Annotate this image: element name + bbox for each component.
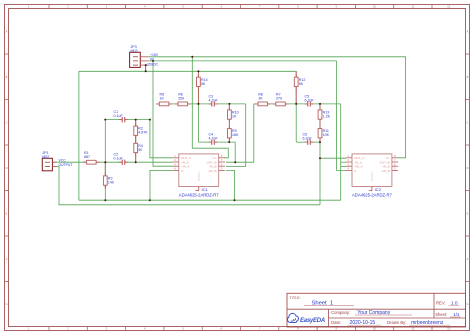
svg-text:250: 250 — [178, 97, 184, 101]
svg-text:D: D — [6, 166, 8, 170]
wire 0V drop to IC1 +IN_A — [153, 61, 173, 166]
svg-text:16K: 16K — [232, 133, 239, 137]
label C1 — [114, 110, 124, 118]
svg-text:1.2K: 1.2K — [323, 115, 331, 119]
svg-text:1/1: 1/1 — [453, 312, 460, 317]
svg-text:140: 140 — [108, 181, 114, 185]
wire IC1 +IN_B to bus1 — [226, 170, 235, 200]
svg-text:B: B — [467, 75, 469, 79]
resistor R5 1K — [156, 102, 172, 106]
svg-text:50: 50 — [138, 148, 142, 152]
svg-text:887: 887 — [84, 155, 90, 159]
label R2 — [138, 127, 148, 135]
capacitor C5 6.2nF — [305, 101, 314, 106]
capacitor C2 0.1uF — [119, 160, 128, 165]
svg-text:G: G — [466, 302, 468, 306]
title block TITLE label — [290, 296, 301, 300]
wire -V line from JP3 pin3 through R14 and R12 — [79, 71, 296, 104]
svg-text:B: B — [6, 75, 8, 79]
svg-text:C: C — [467, 120, 469, 124]
svg-text:10K: 10K — [323, 133, 330, 137]
wire bus1 riser to stage2 row — [340, 104, 342, 200]
svg-text:0.1uF: 0.1uF — [114, 114, 124, 118]
label R13 — [323, 111, 331, 119]
wire bottom bus2 output — [52, 166, 320, 204]
svg-text:1K: 1K — [232, 115, 237, 119]
resistor R12 56 — [294, 74, 298, 90]
net label +15V — [150, 53, 159, 57]
net label -15VDC — [146, 63, 159, 67]
resistor lead R14 — [197, 71, 199, 104]
svg-text:+IN_B: +IN_B — [208, 169, 216, 173]
svg-text:0.1uF: 0.1uF — [114, 157, 124, 161]
label JP3 refdes — [131, 45, 138, 53]
resistor R4 50 — [134, 140, 138, 156]
label C4 — [209, 133, 219, 141]
wire R2 R4 chain column — [135, 120, 137, 163]
wire branch to IC2 -IN_A pin — [341, 161, 346, 163]
resistor R11 10K — [318, 125, 322, 141]
capacitor C3 4.7nF — [209, 101, 218, 106]
resistor lead R3 — [104, 163, 106, 189]
svg-text:ADA4625: ADA4625 — [371, 171, 374, 181]
wire JP3 pin3 stub drop — [145, 65, 147, 71]
svg-text:56: 56 — [299, 82, 303, 86]
svg-text:V-: V- — [181, 169, 184, 173]
capacitor C4 4.7nF — [209, 140, 218, 145]
connector JP3 M03 power header — [130, 52, 149, 67]
capacitor C1 0.1uF — [119, 117, 128, 122]
label C2 — [114, 153, 124, 161]
wire C3 node to C4 — [197, 104, 199, 142]
op-amp IC1 ADA4625-2ARDZ-R7 — [173, 154, 225, 191]
svg-text:Drawn By:: Drawn By: — [387, 320, 406, 325]
title block Sheet number — [435, 312, 460, 317]
label R10 — [232, 111, 239, 119]
svg-text:G: G — [5, 302, 7, 306]
wire +V staircase to IC1 V+ — [192, 57, 228, 158]
wire +V bus from JP3 pin1 to IC2 V+ — [148, 57, 405, 158]
resistor R3 140 — [103, 173, 107, 189]
title block sheet name — [304, 300, 354, 306]
wire IC1 V- to bus1 — [150, 170, 173, 200]
label R6 — [178, 93, 184, 101]
net label VCC — [59, 159, 67, 163]
resistor chain lead R13-R11 — [319, 104, 321, 142]
resistor lead R12 — [295, 71, 297, 104]
svg-text:E: E — [467, 211, 469, 215]
svg-text:A: A — [6, 29, 8, 33]
title block Date — [331, 320, 381, 326]
svg-text:Company:: Company: — [331, 310, 350, 315]
resistor R2 4.87K — [134, 123, 138, 139]
label IC2 — [352, 187, 392, 198]
label R1 — [84, 151, 90, 159]
resistor R14 56 — [197, 74, 201, 90]
label JP1 refdes — [42, 151, 49, 159]
EasyEDA logo — [288, 313, 325, 324]
title block REV — [436, 301, 460, 307]
label R12 — [299, 78, 306, 86]
junction dots — [104, 56, 321, 201]
wire C6 row — [296, 104, 320, 142]
svg-text:6.2nF: 6.2nF — [303, 137, 313, 141]
svg-text:1K: 1K — [160, 97, 165, 101]
wire 0V down to IC2 V- pin — [337, 61, 347, 170]
label C6 — [303, 133, 313, 141]
svg-text:ADA4625: ADA4625 — [198, 171, 201, 181]
svg-text:M02: M02 — [42, 155, 49, 159]
wire IC2 OUT_A node vertical — [319, 104, 321, 158]
resistor R10 1K — [228, 107, 232, 123]
net label OUTPUT — [59, 163, 73, 167]
wire C4/R9 node to OUT_B — [229, 142, 235, 162]
svg-text:C: C — [6, 120, 8, 124]
svg-text:REV:: REV: — [436, 301, 446, 306]
svg-text:ADA4625-2ARDZ-R7: ADA4625-2ARDZ-R7 — [179, 193, 219, 198]
wire C4 row — [198, 141, 229, 143]
label C5 — [305, 94, 315, 102]
svg-text:+IN_B: +IN_B — [381, 169, 389, 173]
capacitor C6 6.2nF — [305, 140, 314, 145]
wire stage1 signal row — [157, 103, 246, 105]
resistor R1 887 — [83, 160, 99, 164]
resistor chain lead R2-R4 — [135, 120, 137, 163]
wire input row — [52, 161, 172, 163]
wire C1 left drop through R3 — [104, 120, 106, 201]
svg-text:Date:: Date: — [331, 320, 341, 325]
svg-text:OUTPUT: OUTPUT — [59, 163, 73, 167]
svg-text:E: E — [6, 211, 8, 215]
svg-text:TITLE:: TITLE: — [290, 296, 301, 300]
svg-text:ADA4625-2ARDZ-R7: ADA4625-2ARDZ-R7 — [352, 193, 392, 198]
resistor R9 16K — [228, 125, 232, 141]
svg-text:270: 270 — [276, 97, 282, 101]
svg-text:4.87K: 4.87K — [138, 131, 148, 135]
label R5 — [160, 93, 165, 101]
resistor R8 1K — [255, 102, 271, 106]
svg-text:V-: V- — [354, 169, 357, 173]
label R8 — [258, 93, 263, 101]
resistor R6 250 — [175, 102, 191, 106]
title block Company — [331, 310, 412, 316]
label R7 — [276, 93, 282, 101]
title block frame — [287, 293, 466, 327]
wire stage2 signal row — [254, 103, 341, 105]
op-amp IC2 ADA4625-2ARDZ-R7 — [346, 154, 398, 191]
svg-text:56: 56 — [201, 82, 205, 86]
label R9 — [232, 129, 239, 137]
resistor R13 1.2K — [318, 107, 322, 123]
svg-text:M03: M03 — [131, 49, 138, 53]
wire OUT_B to stage2 row — [226, 104, 254, 162]
svg-text:Sheet:: Sheet: — [435, 312, 447, 317]
label IC1 — [179, 187, 219, 198]
wire stage1 row to IC1 -IN_B pin — [226, 104, 246, 166]
svg-text:IC1: IC1 — [202, 187, 209, 192]
svg-text:IC2: IC2 — [375, 187, 382, 192]
label R14 — [201, 78, 208, 86]
resistor R7 270 — [273, 102, 289, 106]
connector JP1 M02 signal header — [42, 158, 56, 171]
title block Drawn By — [387, 320, 450, 326]
label R4 — [138, 144, 143, 152]
wire 0V line from JP3 pin2 to IC2 side — [148, 60, 336, 62]
svg-text:6.2nF: 6.2nF — [305, 98, 315, 102]
wire branch to IC2 +IN_A pin — [341, 165, 346, 167]
svg-text:1K: 1K — [258, 97, 263, 101]
wire left loop vertical — [78, 71, 80, 200]
wire C1 row — [105, 119, 150, 121]
svg-text:4.7nF: 4.7nF — [209, 137, 219, 141]
net label 0V — [150, 57, 155, 61]
wire output drop to bus2 — [319, 158, 321, 205]
wire C1 node to IC1 OUT_A — [150, 120, 173, 158]
label R3 — [108, 177, 114, 185]
label R11 — [323, 129, 330, 137]
resistor chain lead R10-R9 — [228, 104, 230, 142]
wire bottom bus1 — [79, 199, 341, 201]
svg-text:-15VDC: -15VDC — [146, 63, 159, 67]
svg-text:D: D — [467, 166, 469, 170]
wire IC2 OUT_A pin link — [320, 157, 346, 159]
svg-text:A: A — [467, 29, 469, 33]
svg-text:4.7nF: 4.7nF — [209, 98, 219, 102]
svg-text:EasyEDA: EasyEDA — [300, 318, 325, 324]
label C3 — [209, 94, 219, 102]
